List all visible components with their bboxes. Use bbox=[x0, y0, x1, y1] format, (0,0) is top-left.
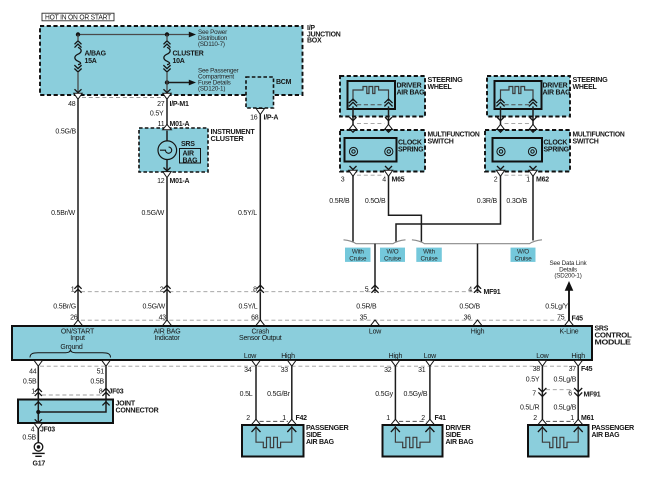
label MULTIFUNCTION SWITCH (right) bbox=[573, 131, 625, 145]
label CLOCK SPRING (left) bbox=[398, 140, 424, 154]
svg-text:SWITCH: SWITCH bbox=[428, 138, 454, 145]
wire to MF91 pin 4 bbox=[477, 244, 479, 293]
svg-text:MULTIFUNCTION: MULTIFUNCTION bbox=[428, 131, 480, 138]
note See Power Distribution (SD110-7) bbox=[198, 29, 228, 48]
svg-text:Cruise: Cruise bbox=[384, 255, 402, 262]
svg-text:0.5Y/L: 0.5Y/L bbox=[238, 210, 257, 217]
node HOT IN ON OR START bbox=[42, 13, 114, 21]
pin 11 M01-A bbox=[158, 121, 190, 128]
wire crash low pin34 bbox=[255, 366, 257, 424]
svg-text:3: 3 bbox=[341, 177, 345, 184]
net ON/START Input bbox=[61, 328, 95, 342]
note See Passenger Compartment Fuse Details (SD120-1) bbox=[198, 68, 239, 93]
junction dot bbox=[165, 80, 169, 84]
svg-text:CLOCK: CLOCK bbox=[544, 140, 568, 147]
svg-text:CLUSTER: CLUSTER bbox=[173, 51, 204, 58]
JF03 pin 1 bbox=[31, 388, 42, 396]
svg-text:MODULE: MODULE bbox=[595, 339, 632, 346]
svg-text:Low: Low bbox=[536, 353, 549, 360]
svg-text:34: 34 bbox=[244, 367, 252, 374]
squib element (driver side air bag) bbox=[395, 426, 430, 448]
svg-text:G17: G17 bbox=[33, 461, 46, 468]
svg-text:AIR: AIR bbox=[183, 150, 195, 157]
label MULTIFUNCTION SWITCH (left) bbox=[428, 131, 480, 145]
svg-text:51: 51 bbox=[97, 369, 105, 376]
multifunction switch box (left) bbox=[340, 130, 425, 172]
label AIR BAG (boxed) bbox=[180, 149, 201, 165]
svg-text:16: 16 bbox=[250, 115, 258, 122]
connector F42 line bbox=[260, 420, 289, 422]
label JOINT CONNECTOR bbox=[116, 401, 159, 415]
steering wheel box (left) bbox=[340, 76, 425, 117]
svg-text:(SD200-1): (SD200-1) bbox=[554, 273, 581, 280]
connector F45 line (bottom) bbox=[40, 365, 576, 367]
svg-text:0.5Lg/Y: 0.5Lg/Y bbox=[545, 304, 568, 311]
squib arrows (right) bbox=[496, 99, 504, 106]
instrument cluster box bbox=[139, 128, 208, 172]
squib arrows (M61) bbox=[538, 427, 583, 432]
svg-text:5: 5 bbox=[365, 287, 369, 294]
svg-text:Low: Low bbox=[369, 328, 382, 335]
wire to MF91 pin 5 bbox=[374, 244, 376, 293]
svg-text:Cruise: Cruise bbox=[349, 255, 367, 262]
squib element (driver air bag left) bbox=[353, 87, 389, 102]
steering wheel box (right) bbox=[487, 76, 570, 117]
clock spring coil (right pin1) bbox=[528, 147, 536, 155]
connector MF91 line bbox=[81, 291, 481, 293]
svg-text:STEERING: STEERING bbox=[428, 77, 464, 84]
SRS entry chevrons bbox=[73, 320, 573, 326]
value CLUSTER 10A bbox=[173, 51, 204, 65]
svg-text:0.5Br/W: 0.5Br/W bbox=[51, 210, 75, 217]
svg-text:(SD110-7): (SD110-7) bbox=[198, 41, 225, 48]
svg-text:2: 2 bbox=[421, 415, 425, 422]
junction dot bbox=[76, 32, 80, 36]
inline connector steering-clockspring (right) bbox=[496, 117, 537, 129]
svg-text:F42: F42 bbox=[296, 415, 308, 422]
svg-text:1: 1 bbox=[526, 177, 530, 184]
svg-text:0.5O/B: 0.5O/B bbox=[459, 304, 480, 311]
svg-text:CLUSTER: CLUSTER bbox=[211, 136, 244, 143]
connector MF91 line (bottom) bbox=[546, 389, 574, 391]
SRS indicator lamp bbox=[158, 131, 177, 171]
wire to See Passenger Compartment arrow bbox=[167, 82, 191, 84]
wire crash high pin33 bbox=[291, 366, 293, 424]
svg-text:0.3R/B: 0.3R/B bbox=[477, 198, 498, 205]
svg-text:Low: Low bbox=[244, 353, 257, 360]
MF91 pin 1 bbox=[71, 285, 82, 294]
svg-text:(SD120-1): (SD120-1) bbox=[198, 86, 225, 93]
svg-text:MF91: MF91 bbox=[484, 289, 501, 296]
M61 entry chevrons bbox=[538, 419, 547, 425]
wire driver low pin31 bbox=[429, 366, 431, 424]
svg-text:High: High bbox=[281, 353, 295, 360]
dashed link in air bag box (left) bbox=[357, 104, 385, 106]
svg-text:0.5Gy/B: 0.5Gy/B bbox=[404, 391, 428, 398]
F42 entry chevrons bbox=[251, 419, 260, 425]
connector F41 line bbox=[399, 420, 427, 422]
svg-text:MF91: MF91 bbox=[584, 391, 601, 398]
svg-text:Cruise: Cruise bbox=[421, 255, 439, 262]
JF03 pin 8 bbox=[99, 388, 124, 396]
driver air bag U-M62 box bbox=[495, 81, 542, 109]
squib arrows (left) bbox=[349, 99, 357, 106]
fuse CLUSTER 10A bbox=[163, 35, 170, 94]
svg-text:1: 1 bbox=[31, 389, 35, 396]
svg-text:48: 48 bbox=[68, 101, 76, 108]
squib arrows (F42) bbox=[252, 427, 297, 432]
svg-text:7: 7 bbox=[532, 390, 536, 397]
svg-text:AIR BAG: AIR BAG bbox=[592, 432, 621, 439]
wire 0.5Y/L (BCM to SRS 68) bbox=[259, 115, 261, 323]
svg-text:High: High bbox=[389, 353, 403, 360]
svg-text:33: 33 bbox=[281, 367, 289, 374]
svg-text:Ground: Ground bbox=[60, 344, 82, 351]
svg-text:Indicator: Indicator bbox=[154, 335, 180, 342]
wire 0.5G/W (cluster to SRS 43) bbox=[166, 178, 168, 322]
wire ground pin51 bbox=[105, 366, 107, 412]
tag W/O Cruise (M62 pin1) bbox=[511, 248, 536, 263]
svg-text:1: 1 bbox=[71, 287, 75, 294]
wire M62 pin1 segment bbox=[532, 106, 534, 240]
svg-text:SRS: SRS bbox=[181, 141, 195, 148]
svg-text:BCM: BCM bbox=[276, 79, 292, 86]
svg-text:HOT IN ON OR START: HOT IN ON OR START bbox=[45, 15, 112, 22]
svg-text:DRIVER: DRIVER bbox=[446, 425, 471, 432]
connector F45 line (top) bbox=[81, 319, 566, 321]
squib element (passenger air bag) bbox=[542, 426, 578, 448]
svg-text:2: 2 bbox=[533, 415, 537, 422]
svg-text:0.5Br/G: 0.5Br/G bbox=[53, 304, 76, 311]
svg-text:0.5R/B: 0.5R/B bbox=[356, 304, 377, 311]
MF91 pin 7 bbox=[532, 388, 546, 397]
svg-text:0.5G/B: 0.5G/B bbox=[55, 129, 76, 136]
MF91 pin 6 bbox=[568, 388, 582, 397]
wire 0.5G/B (pin48 to SRS 26) bbox=[77, 99, 79, 322]
svg-text:SPRING: SPRING bbox=[398, 147, 424, 154]
svg-text:0.5R/B: 0.5R/B bbox=[329, 198, 350, 205]
svg-text:0.5Lg/B: 0.5Lg/B bbox=[553, 405, 576, 412]
wire K-line with up arrow bbox=[568, 288, 570, 322]
svg-text:SIDE: SIDE bbox=[306, 432, 322, 439]
clock spring entry chevrons (right) bbox=[497, 129, 537, 133]
tag W/O Cruise (M62 pin2) bbox=[380, 248, 405, 263]
svg-text:11: 11 bbox=[158, 121, 165, 128]
clock spring coil (left pin4) bbox=[385, 147, 393, 155]
svg-text:0.5Y: 0.5Y bbox=[526, 377, 540, 384]
svg-text:M01-A: M01-A bbox=[170, 121, 190, 128]
svg-text:4: 4 bbox=[31, 427, 35, 434]
F41 entry chevrons bbox=[391, 419, 400, 425]
svg-text:A/BAG: A/BAG bbox=[85, 51, 107, 58]
clock spring box (right) bbox=[493, 138, 543, 162]
driver air bag U-M65 box bbox=[348, 81, 396, 109]
inline connector steering-clockspring (left) bbox=[349, 117, 393, 129]
merge bracket A (pin 5) bbox=[344, 240, 406, 244]
label SRS CONTROL MODULE bbox=[595, 325, 633, 346]
svg-text:0.5Gy: 0.5Gy bbox=[375, 391, 393, 398]
connector JF03 line bbox=[42, 394, 102, 396]
wire passenger low pin38 bbox=[541, 366, 543, 424]
svg-text:2: 2 bbox=[246, 415, 250, 422]
brace Ground pins bbox=[30, 349, 111, 357]
passenger air bag box bbox=[528, 425, 589, 457]
I/P junction box bbox=[40, 26, 303, 95]
net Crash Sensor Output bbox=[239, 328, 282, 342]
svg-text:MULTIFUNCTION: MULTIFUNCTION bbox=[573, 131, 625, 138]
svg-text:SRS: SRS bbox=[595, 325, 609, 332]
tag With Cruise (M65 pin4) bbox=[416, 248, 442, 263]
clock spring coil (right pin2) bbox=[497, 147, 505, 155]
svg-text:4: 4 bbox=[468, 287, 472, 294]
svg-text:CLOCK: CLOCK bbox=[398, 140, 422, 147]
pin 16 I/P-A bbox=[250, 109, 278, 122]
BCM box bbox=[246, 77, 274, 108]
label STEERING WHEEL (left) bbox=[428, 77, 464, 91]
label I/P JUNCTION BOX bbox=[307, 25, 341, 45]
svg-text:JOINT: JOINT bbox=[116, 401, 136, 408]
svg-text:2: 2 bbox=[160, 287, 164, 294]
label INSTRUMENT CLUSTER bbox=[211, 129, 256, 143]
svg-text:0.5B: 0.5B bbox=[22, 435, 36, 442]
svg-text:CONTROL: CONTROL bbox=[595, 332, 633, 339]
svg-text:36: 36 bbox=[464, 315, 472, 322]
label DRIVER AIR BAG (right) bbox=[543, 83, 572, 97]
svg-text:0.5B: 0.5B bbox=[23, 379, 37, 386]
svg-text:43: 43 bbox=[159, 315, 167, 322]
wire driver high pin32 bbox=[394, 366, 396, 424]
wire 0.5Y (pin27 to cluster) bbox=[166, 99, 168, 125]
wire passenger high pin37 bbox=[577, 366, 579, 424]
svg-text:Low: Low bbox=[424, 353, 437, 360]
svg-text:I/P-A: I/P-A bbox=[264, 115, 279, 122]
svg-text:AIR BAG: AIR BAG bbox=[543, 90, 572, 97]
svg-text:High: High bbox=[571, 353, 585, 360]
svg-text:INSTRUMENT: INSTRUMENT bbox=[211, 129, 256, 136]
SRS control module box bbox=[12, 326, 592, 360]
clock spring entry chevrons (left) bbox=[350, 129, 393, 133]
passenger side air bag box bbox=[242, 425, 304, 457]
svg-text:15A: 15A bbox=[85, 58, 97, 65]
svg-text:High: High bbox=[471, 328, 485, 335]
MF91 pin 2 bbox=[160, 285, 171, 294]
joint connector box bbox=[18, 400, 113, 424]
JF03 pin 4 bbox=[31, 423, 56, 433]
connector I/P-M1 dashed line bbox=[82, 97, 164, 99]
arrow to See Power Distribution bbox=[189, 32, 196, 38]
svg-text:K-Line: K-Line bbox=[559, 328, 578, 335]
svg-text:8: 8 bbox=[99, 389, 103, 396]
svg-text:BAG: BAG bbox=[183, 157, 199, 164]
svg-text:M65: M65 bbox=[392, 177, 405, 184]
driver side air bag box bbox=[383, 425, 443, 457]
svg-text:AIR BAG: AIR BAG bbox=[306, 439, 335, 446]
svg-text:0.5G/W: 0.5G/W bbox=[142, 304, 165, 311]
svg-text:AIR BAG: AIR BAG bbox=[397, 90, 426, 97]
svg-text:BOX: BOX bbox=[307, 38, 322, 45]
svg-text:6: 6 bbox=[568, 390, 572, 397]
clock spring coil (left pin3) bbox=[349, 147, 357, 155]
junction dot bbox=[165, 32, 169, 36]
svg-text:Input: Input bbox=[70, 335, 85, 342]
net AIR BAG Indicator bbox=[154, 328, 181, 342]
svg-text:SIDE: SIDE bbox=[446, 432, 462, 439]
svg-text:12: 12 bbox=[157, 178, 165, 185]
squib element (passenger side air bag) bbox=[256, 426, 292, 448]
svg-text:AIR BAG: AIR BAG bbox=[446, 439, 475, 446]
svg-text:JF03: JF03 bbox=[109, 389, 124, 396]
wire ground pin44 bbox=[37, 366, 39, 442]
junction dot joint connector bbox=[36, 410, 40, 414]
pin 48 bbox=[68, 89, 82, 108]
svg-text:35: 35 bbox=[360, 315, 368, 322]
svg-text:68: 68 bbox=[251, 315, 259, 322]
svg-text:1: 1 bbox=[570, 415, 574, 422]
svg-text:0.5Y: 0.5Y bbox=[150, 111, 164, 118]
SRS exit chevrons bbox=[34, 360, 582, 366]
note See Data Link Details (SD200-1) bbox=[550, 260, 588, 280]
pin 12 M01-A bbox=[157, 168, 189, 186]
wire jumper inside joint connector bbox=[38, 400, 106, 413]
svg-text:10A: 10A bbox=[173, 58, 185, 65]
svg-text:32: 32 bbox=[384, 367, 392, 374]
MF91 pin 5 bbox=[365, 285, 379, 294]
svg-text:0.5L/R: 0.5L/R bbox=[520, 405, 540, 412]
svg-text:37: 37 bbox=[569, 366, 577, 373]
dashed link in air bag box (right) bbox=[505, 104, 530, 106]
multifunction switch box (right) bbox=[485, 130, 570, 172]
svg-text:31: 31 bbox=[418, 367, 426, 374]
svg-text:JF03: JF03 bbox=[40, 427, 55, 434]
clock spring box (left) bbox=[345, 138, 397, 162]
svg-text:4: 4 bbox=[382, 177, 386, 184]
svg-text:DRIVER: DRIVER bbox=[543, 83, 568, 90]
svg-text:75: 75 bbox=[557, 315, 565, 322]
svg-text:WHEEL: WHEEL bbox=[573, 84, 598, 91]
svg-text:27: 27 bbox=[157, 101, 165, 108]
joint connector exit arrow bbox=[35, 419, 42, 423]
svg-text:Cruise: Cruise bbox=[515, 255, 533, 262]
svg-text:1: 1 bbox=[282, 415, 286, 422]
svg-text:38: 38 bbox=[533, 366, 541, 373]
svg-text:44: 44 bbox=[29, 369, 37, 376]
wire M62 pin2 segment bbox=[396, 106, 501, 241]
svg-text:1: 1 bbox=[386, 415, 390, 422]
svg-text:0.5O/B: 0.5O/B bbox=[365, 198, 386, 205]
svg-text:F45: F45 bbox=[581, 366, 593, 373]
connector M61 line bbox=[546, 420, 574, 422]
wire M65 pin3 segment bbox=[352, 106, 354, 241]
svg-text:0.5B: 0.5B bbox=[90, 379, 104, 386]
merge bracket B (pin 4) bbox=[412, 240, 542, 244]
svg-text:2: 2 bbox=[494, 177, 498, 184]
svg-text:PASSENGER: PASSENGER bbox=[306, 425, 349, 432]
squib arrows (F41) bbox=[391, 427, 435, 432]
label DRIVER SIDE AIR BAG bbox=[446, 425, 475, 446]
svg-text:0.5G/Br: 0.5G/Br bbox=[267, 391, 291, 398]
svg-text:26: 26 bbox=[70, 315, 78, 322]
MF91 pin 8 bbox=[253, 285, 264, 294]
ground G17 bbox=[32, 443, 45, 468]
svg-text:STEERING: STEERING bbox=[573, 77, 609, 84]
wire M65 pin4 segment bbox=[389, 106, 422, 241]
svg-text:Sensor Output: Sensor Output bbox=[239, 335, 282, 342]
svg-text:SWITCH: SWITCH bbox=[573, 138, 599, 145]
label PASSENGER AIR BAG bbox=[592, 425, 635, 439]
svg-text:F41: F41 bbox=[435, 415, 447, 422]
svg-text:M62: M62 bbox=[536, 177, 549, 184]
svg-text:0.5L: 0.5L bbox=[240, 391, 253, 398]
connector M65 pins 3,4 bbox=[341, 166, 405, 184]
svg-text:SPRING: SPRING bbox=[544, 147, 570, 154]
label PASSENGER SIDE AIR BAG bbox=[306, 425, 349, 446]
svg-text:I/P-M1: I/P-M1 bbox=[170, 101, 189, 108]
svg-text:F45: F45 bbox=[572, 315, 584, 322]
label CLOCK SPRING (right) bbox=[544, 140, 570, 154]
svg-text:DRIVER: DRIVER bbox=[397, 83, 422, 90]
value A/BAG 15A bbox=[85, 51, 107, 65]
svg-text:PASSENGER: PASSENGER bbox=[592, 425, 635, 432]
pin 11 chevron bbox=[163, 124, 172, 129]
wire bus in junction box bbox=[78, 34, 191, 36]
svg-text:0.5Lg/B: 0.5Lg/B bbox=[553, 377, 576, 384]
fuse A/BAG 15A bbox=[74, 35, 81, 94]
svg-text:0.3O/B: 0.3O/B bbox=[506, 198, 527, 205]
MF91 pin 4 bbox=[468, 285, 481, 294]
label STEERING WHEEL (right) bbox=[573, 77, 609, 91]
label DRIVER AIR BAG (left) bbox=[397, 83, 426, 97]
svg-text:WHEEL: WHEEL bbox=[428, 84, 453, 91]
pin 27 I/P-M1 bbox=[157, 89, 189, 108]
squib element (driver air bag right) bbox=[501, 87, 534, 102]
tag With Cruise (M65 pin3) bbox=[345, 248, 371, 263]
connector M62 pins 2,1 bbox=[494, 166, 549, 184]
svg-text:M01-A: M01-A bbox=[170, 178, 190, 185]
wire through joint connector bbox=[37, 395, 39, 443]
svg-text:CONNECTOR: CONNECTOR bbox=[116, 408, 159, 415]
joint connector entry arrows bbox=[35, 402, 110, 406]
svg-text:8: 8 bbox=[253, 287, 257, 294]
svg-text:M61: M61 bbox=[581, 415, 594, 422]
svg-text:0.5G/W: 0.5G/W bbox=[141, 210, 164, 217]
svg-text:0.5Y/L: 0.5Y/L bbox=[238, 304, 257, 311]
